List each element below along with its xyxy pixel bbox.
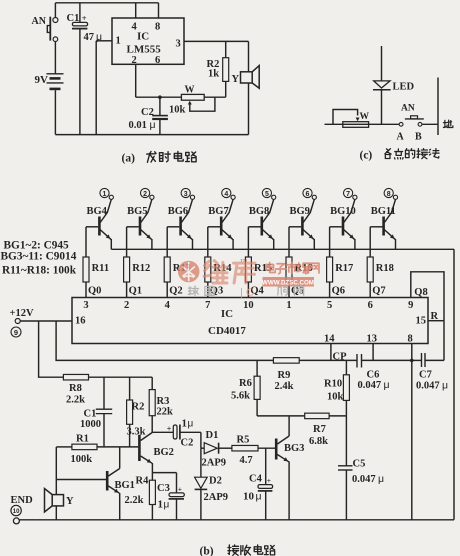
svg-text:μ: μ xyxy=(378,473,384,485)
wire pin4 to top rail xyxy=(135,3,137,18)
wire +12V branch to CP pull-up xyxy=(56,321,273,360)
svg-text:BG1: BG1 xyxy=(115,480,135,491)
svg-text:W: W xyxy=(360,112,370,122)
svg-text:4: 4 xyxy=(165,300,171,311)
wire horizontal of (c) xyxy=(325,123,400,125)
svg-text:R7: R7 xyxy=(313,424,326,435)
wire pin3 output xyxy=(184,40,249,42)
wire R15 to Q4 xyxy=(247,282,249,298)
wire +12V branch down to R8 xyxy=(39,321,64,377)
node junction pin8 and C7 xyxy=(410,359,414,363)
svg-text:Q7: Q7 xyxy=(372,286,385,297)
svg-text:R6: R6 xyxy=(239,378,252,389)
svg-text:+: + xyxy=(178,484,182,493)
svg-text:TM: TM xyxy=(240,258,248,263)
watermark weiku large characters xyxy=(204,261,227,283)
wire R18 to Q7 xyxy=(369,282,371,298)
resistor R8 2.2k xyxy=(63,374,88,380)
svg-text:IC: IC xyxy=(221,308,233,320)
resistor R9 2.4k xyxy=(273,358,299,364)
diode D1 2AP9 xyxy=(201,447,204,449)
svg-text:AN: AN xyxy=(401,104,415,114)
svg-text:R17: R17 xyxy=(335,263,353,274)
svg-text:C3: C3 xyxy=(157,483,170,494)
resistor R2 1k (transmitter) xyxy=(225,41,227,57)
wire emitter rail xyxy=(111,248,454,250)
diode D2 2AP9 xyxy=(200,448,202,477)
wire battery to ground rail xyxy=(54,90,56,134)
wire pin13 down xyxy=(372,344,374,361)
resistor R6 5.6k xyxy=(256,360,258,376)
watermark dzsc market characters xyxy=(266,263,275,273)
svg-text:3: 3 xyxy=(83,300,88,311)
svg-text:8: 8 xyxy=(155,22,160,33)
capacitor C2 0.01u (transmitter) xyxy=(159,97,161,115)
svg-text:C1: C1 xyxy=(84,409,97,420)
svg-text:(c): (c) xyxy=(360,150,373,162)
svg-text:R11: R11 xyxy=(92,263,110,274)
capacitor C7 0.047u xyxy=(421,353,423,367)
svg-text:2AP9: 2AP9 xyxy=(204,492,229,503)
svg-text:AN: AN xyxy=(32,16,47,27)
svg-text:R9: R9 xyxy=(278,370,291,381)
svg-text:9: 9 xyxy=(14,328,18,337)
op IC CD4017 U2 xyxy=(72,298,428,344)
svg-text:R3: R3 xyxy=(157,396,170,407)
svg-text:3: 3 xyxy=(176,39,181,50)
svg-text:Q6: Q6 xyxy=(332,286,345,297)
svg-text:1k: 1k xyxy=(208,69,219,80)
svg-text:47: 47 xyxy=(84,32,95,43)
wire R13 to Q2 xyxy=(166,282,168,298)
svg-text:9V: 9V xyxy=(35,74,49,86)
svg-text:D2: D2 xyxy=(209,476,222,487)
transistor BG2 xyxy=(138,435,141,461)
svg-text:LED: LED xyxy=(393,82,415,93)
svg-text:|: | xyxy=(241,288,243,299)
svg-text:1: 1 xyxy=(286,300,291,311)
svg-text:(b): (b) xyxy=(200,546,214,556)
svg-text:22k: 22k xyxy=(157,407,174,418)
svg-text:C7: C7 xyxy=(419,370,432,381)
svg-text:6: 6 xyxy=(368,300,373,311)
wire pin8 down to ground xyxy=(411,344,413,520)
potentiometer W of (c) xyxy=(343,122,369,128)
resistor R4 2.2k xyxy=(151,473,153,481)
svg-text:6: 6 xyxy=(155,55,160,66)
svg-text:R4: R4 xyxy=(136,476,150,487)
svg-text:1: 1 xyxy=(116,36,121,47)
potentiometer W 10k xyxy=(181,94,204,100)
speaker Y (transmitter) xyxy=(248,41,250,71)
svg-text:R1: R1 xyxy=(76,434,89,445)
wire R9 to CP xyxy=(299,359,357,361)
svg-text:9: 9 xyxy=(408,300,413,311)
svg-text:10k: 10k xyxy=(169,105,186,116)
svg-text:14: 14 xyxy=(324,334,335,345)
resistor R13 100k xyxy=(166,227,168,257)
svg-text:(a): (a) xyxy=(122,153,136,165)
svg-text:1000: 1000 xyxy=(80,419,101,430)
svg-text:WWW.DZSC.COM: WWW.DZSC.COM xyxy=(262,279,314,286)
wire R3 bottom to BG2 collector xyxy=(151,416,153,433)
svg-text:1: 1 xyxy=(182,417,188,429)
wire R5 to BG3 base xyxy=(258,447,275,449)
svg-text:2: 2 xyxy=(124,300,129,311)
svg-text:BG6: BG6 xyxy=(168,206,188,217)
svg-text:5: 5 xyxy=(265,191,269,198)
wire left column to ground with speaker xyxy=(56,446,72,448)
capacitor C2 1u (receiver) xyxy=(152,431,173,433)
svg-text:C4: C4 xyxy=(249,474,263,485)
wire emitter rail to ground right side xyxy=(453,249,455,520)
ground line di xyxy=(437,78,439,136)
svg-text:BG3~11: C9014: BG3~11: C9014 xyxy=(1,251,77,263)
wire R12 to Q1 xyxy=(126,282,128,298)
node terminal 8 (circled) xyxy=(384,188,393,197)
svg-text:LM555: LM555 xyxy=(127,44,162,56)
wire pin1 to ground xyxy=(96,40,112,42)
svg-text:Q2: Q2 xyxy=(169,286,182,297)
transistor BG3 xyxy=(275,439,278,460)
svg-text:μ: μ xyxy=(442,380,448,392)
wire Q8 pin9 loop to reset xyxy=(411,272,444,321)
svg-text:μ: μ xyxy=(188,418,194,429)
svg-text:BG9: BG9 xyxy=(290,206,310,217)
svg-text:16: 16 xyxy=(75,316,86,327)
svg-text:10k: 10k xyxy=(327,392,344,403)
svg-text:6.8k: 6.8k xyxy=(309,436,328,447)
wire bottom rail of transmitter xyxy=(55,134,248,136)
node terminal 6 (circled) xyxy=(303,188,312,197)
svg-text:3.3k: 3.3k xyxy=(127,427,146,438)
wire C6 to pin13 xyxy=(362,359,412,361)
watermark logo disc xyxy=(178,261,200,283)
svg-text:15: 15 xyxy=(416,316,427,327)
svg-text:13: 13 xyxy=(367,334,378,345)
node terminal 5 (circled) xyxy=(262,188,271,197)
svg-text:A: A xyxy=(397,132,405,143)
svg-text:2AP9: 2AP9 xyxy=(202,458,227,469)
svg-text:8: 8 xyxy=(387,191,391,198)
svg-text:5.6k: 5.6k xyxy=(231,391,250,402)
node junction pin2-pin6 xyxy=(158,95,162,99)
svg-text:B: B xyxy=(415,132,422,143)
op IC LM555 U1 xyxy=(112,18,184,64)
resistor R5 4.7 xyxy=(232,445,258,451)
node terminal 1 (circled) xyxy=(100,188,109,197)
svg-text:IC: IC xyxy=(137,31,149,43)
svg-text:R12: R12 xyxy=(132,263,150,274)
LED D3 with label xyxy=(381,46,383,81)
svg-text:Y: Y xyxy=(66,496,74,507)
svg-text:BG3: BG3 xyxy=(284,443,304,454)
wire ground rail receiver xyxy=(37,519,454,521)
wire switch to battery xyxy=(54,42,56,74)
wire R11 to Q0 xyxy=(85,282,87,298)
svg-text:+: + xyxy=(267,476,271,485)
resistor R17 100k xyxy=(329,227,331,257)
svg-text:0.047: 0.047 xyxy=(358,380,382,391)
resistor R18 100k xyxy=(369,227,371,257)
wire pin2 down xyxy=(135,64,137,97)
node terminal 7 (circled) xyxy=(344,188,353,197)
wire W to R2 bottom xyxy=(204,96,226,98)
capacitor C3 1u xyxy=(152,472,176,474)
svg-text:10: 10 xyxy=(243,300,254,311)
resistor R14 100k xyxy=(207,227,209,257)
resistor R1 100k (receiver) xyxy=(72,444,97,450)
svg-text:W: W xyxy=(185,85,195,96)
svg-text:8: 8 xyxy=(408,334,413,345)
svg-text:CP: CP xyxy=(333,352,348,363)
svg-text:100k: 100k xyxy=(71,454,93,465)
svg-text:+12V: +12V xyxy=(10,308,34,319)
svg-text:R8: R8 xyxy=(69,383,82,394)
watermark gray text row xyxy=(188,286,198,296)
wire R14 to Q3 xyxy=(207,282,209,298)
resistor R2 3.3k (receiver) xyxy=(129,377,131,400)
svg-text:μ: μ xyxy=(256,491,262,503)
resistor R15 100k xyxy=(247,227,249,257)
svg-text:CD4017: CD4017 xyxy=(208,325,246,337)
svg-text:7: 7 xyxy=(346,191,350,198)
svg-text:Q8: Q8 xyxy=(414,287,427,298)
resistor R3 22k xyxy=(151,377,153,389)
speaker Y (receiver) xyxy=(52,495,63,506)
wire R17 to Q6 xyxy=(329,282,331,298)
svg-text:END: END xyxy=(11,495,34,506)
capacitor C6 0.047u xyxy=(356,354,358,368)
svg-text:2.2k: 2.2k xyxy=(66,395,85,406)
capacitor C4 10u xyxy=(265,448,267,484)
wire R6 bottom to R7 xyxy=(257,415,305,417)
wire B to ground line xyxy=(422,123,438,125)
wire C2 to D1 D2 junction xyxy=(200,432,202,448)
wire +12V to pin 16 xyxy=(20,320,72,322)
node terminal 2 (circled) xyxy=(141,188,150,197)
svg-text:R5: R5 xyxy=(237,435,250,446)
svg-text:D1: D1 xyxy=(206,430,219,441)
svg-text:3: 3 xyxy=(184,191,188,198)
resistor R reset wire pin15 xyxy=(428,320,444,322)
svg-text:μ: μ xyxy=(384,379,390,391)
svg-text:2.4k: 2.4k xyxy=(275,381,294,392)
transistor BG1 xyxy=(106,471,109,491)
svg-text:R: R xyxy=(431,311,439,322)
svg-text:BG5: BG5 xyxy=(127,206,147,217)
svg-text:μ: μ xyxy=(150,119,156,131)
resistor R12 100k xyxy=(126,227,128,257)
pushbutton switch AN (transmitter) xyxy=(54,3,56,17)
svg-text:C2: C2 xyxy=(181,437,194,448)
capacitor C1 1000 (receiver) xyxy=(103,377,105,409)
svg-text:μ: μ xyxy=(164,500,170,511)
svg-text:4.7: 4.7 xyxy=(240,455,253,466)
node terminal 4 (circled) xyxy=(222,188,231,197)
svg-text:0.01: 0.01 xyxy=(129,120,147,131)
svg-text:4: 4 xyxy=(224,191,228,198)
svg-text:Q0: Q0 xyxy=(88,286,101,297)
wire pin14 CP xyxy=(330,344,332,361)
svg-text:R10: R10 xyxy=(324,379,342,390)
wire top rail of transmitter xyxy=(55,2,158,4)
resistor R10 10k xyxy=(345,360,347,374)
svg-text:BG8: BG8 xyxy=(249,206,269,217)
svg-text:C5: C5 xyxy=(353,459,366,470)
svg-text:0.047: 0.047 xyxy=(416,381,440,392)
svg-text:10: 10 xyxy=(243,491,255,503)
svg-text:C2: C2 xyxy=(141,107,154,118)
wire R1 net to BG2 base xyxy=(97,446,138,448)
svg-text:1: 1 xyxy=(158,499,164,511)
svg-text:C: C xyxy=(246,288,254,299)
svg-text:BG2: BG2 xyxy=(154,447,174,458)
svg-text:7: 7 xyxy=(205,300,210,311)
svg-text:1: 1 xyxy=(103,191,107,198)
wire pin8 to top rail xyxy=(158,3,160,18)
svg-text:2.2k: 2.2k xyxy=(125,495,144,506)
svg-text:+: + xyxy=(82,13,87,23)
resistor R7 6.8k xyxy=(305,413,329,419)
wire BG1 base tap xyxy=(56,479,106,481)
wire R8 to amplifier rail xyxy=(89,376,153,378)
svg-text:Y: Y xyxy=(232,74,240,85)
svg-text:2: 2 xyxy=(143,191,147,198)
svg-text:Q1: Q1 xyxy=(129,286,142,297)
svg-text:+: + xyxy=(167,425,172,434)
capacitor C5 0.047u xyxy=(345,416,347,466)
svg-text:R2: R2 xyxy=(132,402,145,413)
resistor R11 100k xyxy=(85,227,87,257)
wire R16 to Q5 xyxy=(288,282,290,298)
svg-text:R11~R18: 100k: R11~R18: 100k xyxy=(2,265,77,277)
resistor R16 100k xyxy=(288,227,290,257)
svg-text:BG7: BG7 xyxy=(208,206,228,217)
svg-text:0.047: 0.047 xyxy=(352,474,376,485)
svg-text:C6: C6 xyxy=(367,370,380,381)
svg-text:10: 10 xyxy=(13,509,20,515)
svg-text:R18: R18 xyxy=(376,263,394,274)
node terminal 3 (circled) xyxy=(181,188,190,197)
pushbutton AN of (c) xyxy=(399,122,403,126)
wire reset net down to C7 xyxy=(443,321,445,361)
watermark www.dzsc.com band xyxy=(263,277,315,287)
svg-text:6: 6 xyxy=(306,191,310,198)
svg-text:5: 5 xyxy=(327,300,332,311)
